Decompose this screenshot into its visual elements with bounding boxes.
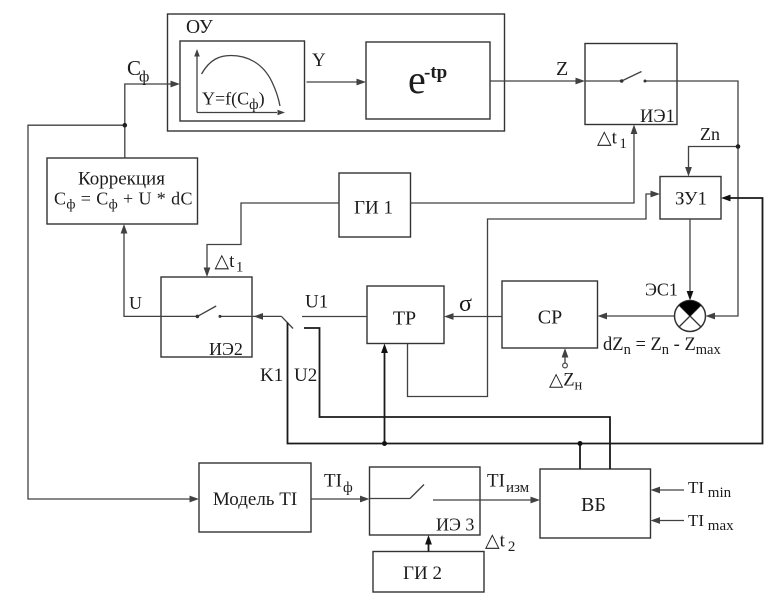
svg-text:Y: Y <box>312 50 326 71</box>
svg-text:U2: U2 <box>294 365 317 386</box>
svg-text:Модель TI: Модель TI <box>213 489 297 510</box>
svg-text:△t2: △t2 <box>485 531 515 556</box>
svg-text:TI max: TI max <box>688 511 734 534</box>
svg-text:dZn = Zn - Zmax: dZn = Zn - Zmax <box>603 335 721 358</box>
svg-text:ИЭ1: ИЭ1 <box>640 107 675 127</box>
svg-text:TIизм: TIизм <box>487 471 530 497</box>
svg-text:ВБ: ВБ <box>581 494 606 516</box>
svg-text:TI min: TI min <box>688 478 732 501</box>
svg-text:△t1: △t1 <box>215 251 244 276</box>
svg-text:U: U <box>129 293 142 313</box>
svg-text:Коррекция: Коррекция <box>78 169 165 190</box>
svg-text:K1: K1 <box>260 365 283 386</box>
svg-text:ИЭ 3: ИЭ 3 <box>436 515 474 535</box>
svg-text:Z: Z <box>556 58 568 80</box>
svg-text:Cф = Cф + U * dC: Cф = Cф + U * dC <box>54 189 193 213</box>
svg-text:ЭС1: ЭС1 <box>645 280 678 300</box>
svg-text:ф: ф <box>139 69 149 86</box>
svg-text:ОУ: ОУ <box>186 17 213 38</box>
svg-text:ГИ 2: ГИ 2 <box>403 563 442 584</box>
svg-text:ИЭ2: ИЭ2 <box>209 339 243 359</box>
svg-text:ТР: ТР <box>393 308 416 330</box>
svg-text:Zn: Zn <box>700 124 720 144</box>
svg-text:Y=f(Cф): Y=f(Cф) <box>202 89 265 114</box>
svg-text:-tp: -tp <box>424 62 447 83</box>
svg-text:△Zн: △Zн <box>549 371 583 394</box>
svg-text:СР: СР <box>538 307 562 329</box>
svg-text:△t1: △t1 <box>597 128 627 153</box>
svg-text:σ: σ <box>459 291 472 317</box>
svg-text:U1: U1 <box>305 292 328 313</box>
svg-text:ЗУ1: ЗУ1 <box>675 189 707 210</box>
svg-text:ГИ 1: ГИ 1 <box>354 198 393 219</box>
svg-text:TIф: TIф <box>324 471 353 497</box>
